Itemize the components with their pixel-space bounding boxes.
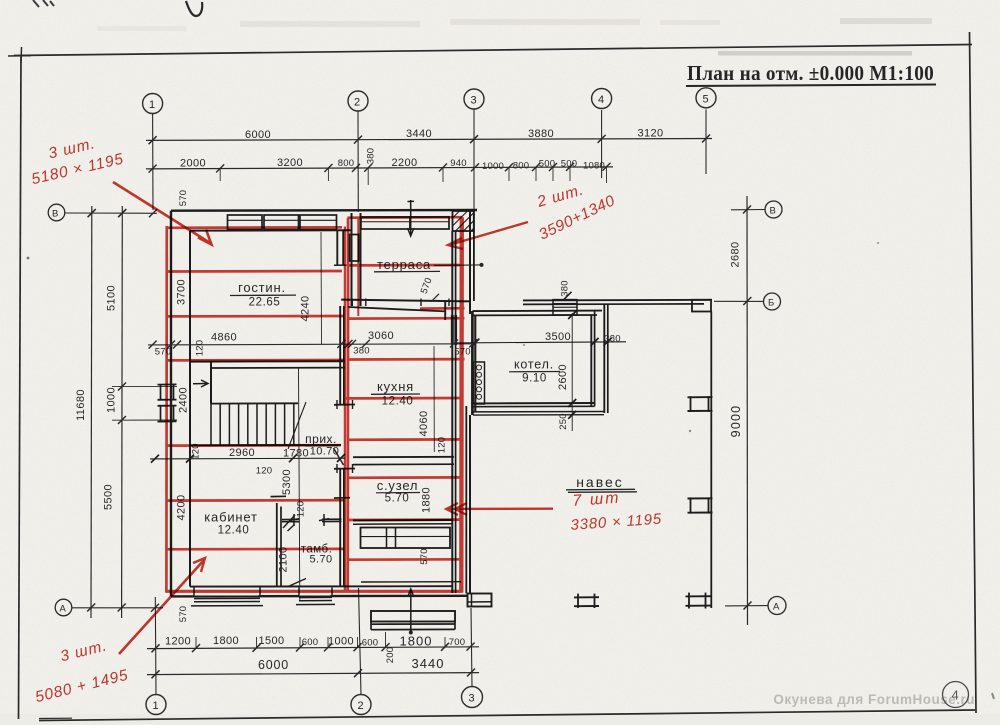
boiler top window ladder [553, 300, 577, 315]
top chain1 ticks [149, 135, 710, 145]
svg-text:2: 2 [354, 97, 361, 109]
kitchen wall tick [431, 294, 439, 302]
left overall dim ticks [88, 209, 96, 217]
drawing title underline [686, 85, 936, 87]
svg-text:кабинет: кабинет [204, 510, 257, 525]
axis2 wall jamb ticks [334, 404, 355, 406]
boiler vertical dim ticks [568, 311, 576, 419]
scan smudge handwritten curl top [186, 1, 202, 16]
red horizontal below bath [348, 558, 463, 561]
svg-text:6000: 6000 [258, 658, 289, 672]
red vertical line left [165, 226, 168, 593]
axis 3 stem bottom [471, 608, 472, 687]
axis 4 circle top [592, 89, 612, 109]
svg-text:3: 3 [471, 95, 478, 107]
svg-text:1000: 1000 [482, 161, 504, 172]
top chain2 ticks [149, 163, 611, 173]
svg-text:Окунева для ForumHouse.ru: Окунева для ForumHouse.ru [773, 692, 975, 707]
left wall vent mark 1 [158, 383, 177, 385]
svg-text:А: А [773, 602, 780, 613]
tambour window sill lines [300, 588, 331, 596]
living-terrace wall stub b [342, 231, 344, 265]
bath south inner line [361, 581, 461, 583]
svg-text:3: 3 [469, 693, 476, 705]
svg-text:4860: 4860 [211, 332, 237, 344]
svg-text:700: 700 [449, 637, 465, 648]
axis B leader left [65, 212, 157, 214]
axis A leader left [72, 607, 163, 609]
top dim chain line 1 [146, 139, 712, 141]
svg-text:600: 600 [362, 638, 378, 649]
axis 1 circle bottom [146, 695, 166, 715]
bath wall top line b [353, 463, 454, 465]
boiler dim line [455, 342, 626, 343]
boiler room right wall a [590, 315, 592, 406]
svg-text:2600: 2600 [557, 364, 569, 390]
canopy wall thickness dim [564, 292, 572, 300]
boiler room lower step lines [473, 411, 604, 413]
canopy top edge line b [523, 303, 704, 306]
axis B leader right [731, 209, 765, 211]
svg-text:7 шт: 7 шт [572, 490, 621, 510]
stairs top rail [211, 402, 298, 404]
axis Б circle right [764, 293, 781, 310]
interior dim line main [148, 344, 474, 345]
wall under living room line b [211, 367, 345, 369]
svg-text:570: 570 [178, 190, 189, 206]
svg-text:2680: 2680 [730, 241, 742, 267]
tambour wall vertical a [276, 503, 278, 586]
svg-text:6000: 6000 [245, 129, 271, 141]
svg-text:с.узел: с.узел [377, 478, 419, 493]
left overall dim line 11680 [90, 206, 93, 618]
living-terrace wall stub jamb [334, 264, 347, 266]
red horizontal hall bottom [166, 444, 342, 447]
boiler left window circles [473, 362, 484, 404]
svg-text:5500: 5500 [103, 484, 115, 510]
red arrow bottom-left [119, 560, 204, 654]
svg-text:кухня: кухня [377, 379, 414, 394]
svg-text:5.70: 5.70 [385, 493, 410, 505]
svg-text:1880: 1880 [421, 487, 433, 513]
canopy top edge line a [523, 299, 712, 302]
svg-text:10.70: 10.70 [310, 446, 340, 458]
right wall line b [455, 231, 457, 593]
axis2 wall lower segment 2b [343, 469, 345, 587]
left wall inner line [189, 231, 191, 587]
red vertical line axis2 left [344, 227, 346, 593]
svg-text:2400: 2400 [178, 387, 190, 413]
small mark right edge [992, 693, 994, 699]
terrace top glazing 2 mullion [410, 221, 449, 223]
svg-text:1200: 1200 [165, 636, 191, 648]
boiler room top wall line a [473, 310, 603, 313]
axis Б leader right [714, 300, 764, 302]
bath wall bottom line b [353, 523, 453, 525]
kitchen dim extension line [433, 346, 435, 452]
page number circle [943, 682, 969, 708]
page frame right line [970, 32, 977, 713]
red arrow right [451, 222, 528, 245]
axis B circle right [765, 201, 782, 218]
kitchen top wall line b [348, 307, 446, 311]
red horizontal bath bottom [348, 518, 463, 521]
window living room 3 mullion [300, 219, 337, 221]
stair left corner wall [210, 362, 212, 404]
boiler vertical dim extension [571, 313, 573, 431]
svg-text:4240: 4240 [300, 295, 312, 321]
kitchen top wall line a [341, 300, 470, 302]
svg-text:200: 200 [385, 647, 396, 663]
svg-text:2000: 2000 [180, 157, 206, 169]
red horizontal kitchen band top [348, 317, 465, 320]
svg-text:380: 380 [560, 280, 571, 296]
red horizontal hall top [166, 359, 346, 362]
svg-text:В: В [770, 206, 777, 217]
svg-text:9000: 9000 [729, 405, 743, 438]
svg-text:12.40: 12.40 [218, 525, 250, 537]
stairs break line [288, 402, 306, 449]
axis A circle left [55, 599, 72, 616]
terrace top glazing 1 [361, 217, 410, 229]
tambour wall cross ticks [289, 519, 299, 521]
svg-text:1080: 1080 [583, 161, 605, 172]
svg-text:11680: 11680 [75, 389, 87, 421]
terrace door jamb box [350, 235, 359, 262]
stairs direction arrow [193, 383, 207, 385]
svg-text:2200: 2200 [391, 157, 417, 169]
axis 3 stem top [473, 109, 475, 300]
svg-text:3700: 3700 [176, 279, 188, 305]
axis2 wall lower line b [343, 306, 345, 405]
svg-text:5: 5 [703, 93, 710, 105]
svg-text:1500: 1500 [258, 635, 284, 647]
terrace top glazing 2 [410, 217, 449, 229]
scan faint streaks along top edge [240, 21, 420, 27]
axis 2 circle bottom [351, 695, 371, 715]
svg-text:4200: 4200 [176, 494, 188, 520]
tambour door leaf [283, 515, 295, 528]
svg-text:1800: 1800 [400, 633, 433, 648]
canopy left wall b [607, 304, 609, 413]
tambour wall vertical b [280, 507, 282, 587]
boiler room right wall b [594, 311, 596, 406]
red horizontal kitchen wall top [420, 307, 465, 310]
boiler dim ticks [471, 338, 611, 347]
axis 1 circle top [143, 94, 163, 114]
svg-text:котел.: котел. [514, 358, 554, 372]
svg-text:800: 800 [338, 158, 354, 169]
bottom dim chain line 2 [147, 673, 479, 675]
kitchen top wall jambs [351, 299, 353, 307]
faint specks [689, 430, 691, 432]
canopy post right 2 [688, 497, 713, 499]
terrace leader line with dot [434, 264, 480, 267]
red horizontal terrace bottom [349, 264, 463, 267]
top dim chain line 2 [146, 167, 613, 169]
left chain dim line [121, 206, 124, 618]
axis 3 circle bottom [462, 687, 483, 708]
stairs treads [211, 403, 294, 445]
svg-text:570: 570 [419, 548, 430, 564]
axis 4 stem top [601, 110, 603, 178]
hall dim ticks [151, 454, 345, 463]
red horizontal kitchen mid [345, 397, 462, 400]
axis A circle right [768, 597, 786, 615]
hall dim extension [299, 368, 300, 601]
porch step lines [371, 623, 455, 625]
top wall inner line [190, 229, 352, 231]
svg-text:План на отм. ±0.000 М1:100: План на отм. ±0.000 М1:100 [687, 61, 934, 85]
axis A leader right [725, 605, 768, 607]
stairs bottom rail [190, 444, 341, 446]
svg-text:1000: 1000 [106, 387, 118, 413]
svg-text:4060: 4060 [418, 410, 430, 436]
canopy post bottom 2 [686, 595, 711, 597]
red arrow top-left [113, 182, 211, 244]
terrace top glazing 1 mullion [361, 221, 410, 223]
boiler room bottom wall b [473, 405, 595, 407]
tambour top wall stub b [322, 518, 342, 520]
canopy post bottom 1 [574, 596, 599, 598]
svg-text:1: 1 [153, 700, 160, 712]
svg-text:1000: 1000 [328, 636, 354, 648]
axis 3 circle top [464, 89, 484, 109]
left chain extension stubs [112, 385, 177, 387]
svg-text:570: 570 [178, 606, 189, 622]
red horizontal living bottom [166, 315, 346, 318]
bottom wall inner line [190, 585, 453, 587]
axis 2 stem top [357, 111, 359, 212]
svg-text:3440: 3440 [412, 656, 445, 671]
svg-text:2: 2 [358, 700, 365, 712]
red horizontal terrace top [348, 216, 463, 219]
left chain ticks [118, 209, 127, 612]
window living room 1 [228, 215, 263, 230]
left wall vent mark 2 [158, 405, 177, 407]
hall dim line [150, 457, 345, 460]
axis 1 stem bottom [154, 597, 157, 695]
scan smudge top-left ink marks [33, 0, 54, 7]
svg-text:В: В [52, 209, 59, 220]
svg-text:800: 800 [513, 161, 529, 172]
scan faint streak above title [718, 51, 912, 56]
red vertical line terrace inner [357, 218, 359, 316]
svg-text:5.70: 5.70 [309, 554, 332, 566]
boiler left wall heavy [471, 311, 474, 415]
small slash marks [288, 525, 295, 532]
bath wall bottom line a [353, 519, 453, 521]
bottom chain1 ticks [152, 643, 475, 653]
right dim line [746, 196, 749, 625]
svg-text:3120: 3120 [637, 128, 663, 140]
svg-text:Б: Б [768, 298, 774, 309]
svg-text:3200: 3200 [277, 157, 303, 169]
svg-text:2960: 2960 [229, 447, 255, 459]
living-terrace wall stub a [336, 231, 338, 265]
svg-text:5300: 5300 [281, 469, 293, 495]
right wall line a [451, 231, 453, 593]
svg-text:380: 380 [604, 334, 620, 345]
svg-text:5100: 5100 [106, 285, 118, 311]
svg-text:570: 570 [155, 347, 171, 358]
bottom chain1 extension stubs [196, 632, 445, 648]
svg-text:3060: 3060 [368, 330, 394, 342]
bottom wall outer line [171, 595, 467, 598]
axis 1 stem top [152, 114, 154, 211]
svg-text:500: 500 [539, 159, 555, 170]
red vertical line right thick [459, 217, 464, 592]
corner post SE [468, 594, 492, 607]
cabinet window sill lines [195, 588, 259, 596]
window living room 2 [264, 215, 299, 230]
axis 2 stem bottom [359, 588, 362, 695]
wall under living room line a [190, 360, 345, 362]
terrace entry arrow [410, 200, 412, 235]
axis 2 circle top [348, 91, 368, 111]
canopy top right post [692, 300, 711, 312]
svg-text:120: 120 [296, 501, 307, 517]
red arrow canopy [448, 508, 553, 511]
canopy left wall a [603, 304, 605, 413]
red horizontal kitchen bottom [348, 438, 463, 441]
axis2 wall lower segment 2a [339, 469, 341, 587]
boiler room bottom wall a [473, 402, 595, 404]
entrance arrow [409, 631, 413, 635]
canopy post right 1 [688, 396, 713, 398]
axis2 terrace wall line a [351, 213, 353, 306]
svg-text:3500: 3500 [545, 331, 571, 343]
svg-text:120: 120 [195, 340, 206, 356]
left wall outer line [170, 211, 172, 597]
red horizontal bath top [348, 476, 463, 479]
terrace brick pier hatched [453, 211, 474, 231]
page frame top line [14, 45, 972, 56]
svg-text:22.65: 22.65 [249, 297, 281, 309]
bottom chain2 ticks [152, 669, 476, 679]
tambour top wall stub a [282, 519, 299, 521]
boiler room top wall line b [473, 314, 598, 316]
red vertical line axis2 right [346, 218, 349, 592]
living room dim extension line [320, 232, 323, 344]
window living room 2 mullion [264, 219, 299, 221]
bathtub [361, 528, 451, 549]
svg-text:навес: навес [576, 474, 624, 490]
window living room 1 mullion [228, 219, 263, 221]
axis2 wall lower line a [339, 306, 341, 405]
axis B circle left [48, 204, 65, 221]
axis 5 stem top [705, 109, 707, 174]
bottom dim chain line 1 [147, 647, 479, 649]
window living room 3 [300, 215, 337, 230]
left axis B tick crosses [88, 209, 96, 217]
svg-text:940: 940 [450, 158, 466, 169]
red horizontal living top [166, 226, 343, 229]
svg-text:120: 120 [256, 466, 272, 477]
red horizontal cabinet mid [166, 548, 346, 551]
right dim ticks [743, 206, 752, 610]
red horizontal cabinet top [166, 499, 346, 502]
svg-text:500: 500 [561, 159, 577, 170]
svg-text:4: 4 [598, 94, 605, 106]
svg-text:гостин.: гостин. [238, 280, 286, 295]
page frame bottom-left stub [39, 717, 72, 719]
svg-text:3880: 3880 [528, 128, 554, 140]
svg-text:4: 4 [952, 688, 959, 703]
scan bottom strip tint [0, 714, 1000, 725]
right wall line c lower [465, 406, 467, 594]
svg-text:1780: 1780 [283, 447, 309, 459]
red horizontal kitchen top [348, 358, 465, 361]
right wall line d [469, 211, 471, 314]
svg-text:3440: 3440 [406, 128, 432, 140]
red horizontal bottom wall [166, 590, 463, 593]
svg-text:380: 380 [366, 148, 377, 164]
svg-text:9.10: 9.10 [522, 373, 547, 385]
svg-text:1800: 1800 [213, 635, 239, 647]
svg-text:250: 250 [558, 413, 569, 429]
interior dim ticks [149, 339, 478, 348]
wall top cross ticks [271, 495, 287, 497]
terrace outer wall edge [473, 211, 475, 301]
page frame corner tick top-left [20, 47, 23, 63]
svg-text:380: 380 [353, 346, 369, 357]
hall door leaf diagonal [334, 448, 344, 465]
left axis A tick crosses [151, 604, 159, 612]
page frame bottom line [39, 710, 975, 721]
bath wall top line a [353, 456, 454, 458]
top wall outer line [171, 209, 477, 212]
red horizontal living mid [166, 270, 343, 273]
svg-text:600: 600 [302, 637, 318, 648]
axis2 terrace wall line b [360, 213, 362, 306]
kitchen NE corner stub [444, 301, 446, 320]
top chain2 extension stubs [220, 167, 606, 185]
porch rect [371, 611, 455, 622]
page frame left line [19, 55, 22, 719]
axis 5 circle top [696, 88, 716, 108]
svg-text:1: 1 [149, 99, 156, 111]
canopy right edge [710, 312, 712, 609]
right wall heavy segment [451, 315, 454, 345]
svg-text:А: А [60, 604, 67, 615]
